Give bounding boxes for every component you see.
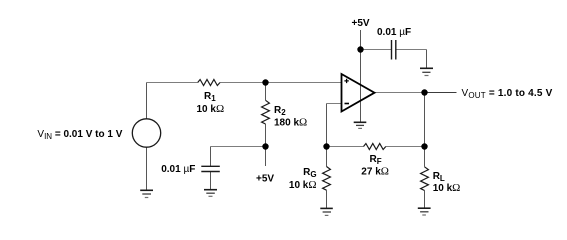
svg-text:10 kΩ: 10 kΩ xyxy=(289,179,317,191)
svg-text:R1: R1 xyxy=(204,91,216,103)
svg-text:+5V: +5V xyxy=(256,174,274,185)
svg-text:VOUT = 1.0 to 4.5 V: VOUT = 1.0 to 4.5 V xyxy=(462,88,553,100)
svg-text:10 kΩ: 10 kΩ xyxy=(433,182,461,194)
svg-text:R2: R2 xyxy=(274,105,286,117)
svg-text:VIN = 0.01 V to 1 V: VIN = 0.01 V to 1 V xyxy=(37,129,122,141)
svg-text:0.01 µF: 0.01 µF xyxy=(161,164,195,175)
svg-text:+5V: +5V xyxy=(352,18,370,29)
svg-text:27 kΩ: 27 kΩ xyxy=(361,165,389,177)
svg-text:RG: RG xyxy=(303,167,316,179)
svg-text:180 kΩ: 180 kΩ xyxy=(274,116,307,128)
svg-text:0.01 µF: 0.01 µF xyxy=(377,27,411,38)
svg-text:10 kΩ: 10 kΩ xyxy=(197,103,225,115)
svg-text:RF: RF xyxy=(370,154,382,166)
svg-text:RL: RL xyxy=(433,171,445,183)
